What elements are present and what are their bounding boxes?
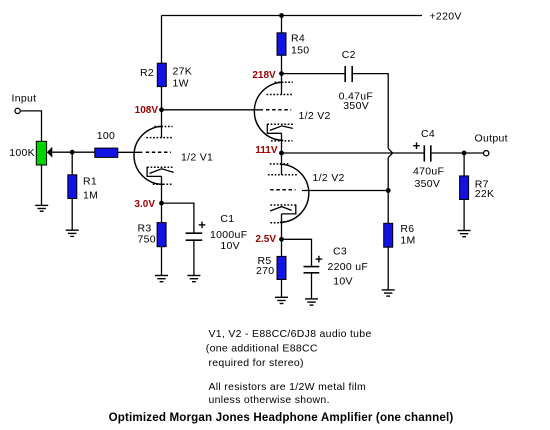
svg-text:108V: 108V: [135, 105, 159, 116]
svg-text:270: 270: [256, 265, 274, 277]
capacitor C3 plus sign: [316, 256, 323, 263]
capacitor C3 plates: [304, 267, 320, 273]
ground R3: [155, 276, 168, 282]
wire R6 to ground: [387, 247, 389, 290]
svg-text:218V: 218V: [252, 70, 276, 81]
capacitor C1 plus sign: [199, 222, 206, 229]
wire 3.0V node to C1: [162, 203, 194, 233]
capacitor C1 plates: [186, 233, 203, 240]
wire C4 to output node: [431, 152, 464, 154]
svg-text:R2: R2: [140, 67, 154, 79]
node output junction: [462, 151, 467, 156]
svg-text:10V: 10V: [220, 240, 240, 252]
triode V1 plate bar: [146, 137, 173, 139]
triode V2 lower plate lead: [281, 153, 283, 175]
triode V2 lower plate bar: [268, 174, 297, 176]
resistor R5: [277, 256, 286, 279]
potentiometer 100K body: [36, 141, 46, 165]
svg-text:Optimized Morgan Jones Headpho: Optimized Morgan Jones Headphone Amplifi…: [109, 411, 454, 424]
wire 2.5V node to R5: [281, 239, 283, 256]
wire R5 to ground: [281, 279, 283, 297]
wire 3.0V node to R3: [161, 203, 163, 223]
triode V2 upper envelope arc: [254, 82, 283, 140]
triode V2 upper plate lead: [281, 74, 283, 95]
svg-text:350V: 350V: [343, 100, 369, 112]
svg-text:(one additional E88CC: (one additional E88CC: [206, 343, 318, 355]
wire input terminal to pot: [21, 111, 42, 141]
triode V1 cathode dotted: [147, 166, 172, 168]
wire hop over 111V line: [388, 148, 392, 157]
triode V2 lower envelope bottom dotted: [270, 222, 282, 224]
svg-text:470uF: 470uF: [413, 165, 444, 177]
wire C3 to ground: [311, 273, 313, 299]
svg-text:1M: 1M: [400, 234, 415, 246]
triode V2 upper plate bar: [267, 94, 294, 96]
triode V2 upper heater caret: [270, 126, 293, 130]
svg-text:1/2 V2: 1/2 V2: [299, 110, 331, 122]
wire output node to R7: [463, 153, 465, 176]
terminal output: [484, 151, 489, 156]
wire V2 upper cathode to 111V node: [281, 133, 283, 153]
resistor 100: [95, 148, 118, 157]
svg-text:27K: 27K: [173, 66, 193, 78]
node rail/R4 junction: [279, 13, 284, 18]
svg-text:unless otherwise shown.: unless otherwise shown.: [209, 394, 330, 406]
wire V2 lower cathode to 2.5V node: [281, 214, 283, 239]
potentiometer wiper arrow: [47, 147, 53, 158]
wire +220V supply rail: [162, 15, 423, 17]
triode V1 grid dashed: [146, 151, 171, 153]
wire 108V node to V2 upper grid: [162, 109, 264, 111]
svg-text:C1: C1: [220, 213, 234, 225]
wire pot bottom to ground: [41, 165, 43, 205]
wire junction to R1: [71, 152, 73, 175]
wire V1 cathode to 3.0V node: [161, 176, 163, 203]
node 3.0V junction: [159, 201, 164, 206]
ground C3: [305, 299, 318, 305]
svg-text:100K: 100K: [9, 147, 35, 159]
svg-text:10V: 10V: [333, 276, 353, 288]
ground R7: [458, 231, 471, 237]
capacitor C2 plates: [345, 66, 352, 82]
svg-text:111V: 111V: [255, 145, 278, 156]
node wiper junction: [70, 150, 75, 155]
svg-text:+220V: +220V: [430, 10, 462, 22]
node 2.5V junction: [279, 237, 284, 242]
ground pot: [35, 205, 48, 211]
resistor R4: [277, 33, 286, 56]
wire junction to 100 resistor: [72, 151, 95, 153]
wire 218V node to C2: [282, 73, 345, 75]
wire R7 to ground: [463, 199, 465, 230]
svg-text:C3: C3: [333, 246, 347, 258]
svg-text:C4: C4: [421, 128, 435, 140]
svg-text:1W: 1W: [173, 78, 189, 90]
svg-text:R6: R6: [400, 223, 414, 235]
ground C1: [187, 276, 200, 282]
triode V2 lower heater caret: [270, 207, 292, 211]
svg-text:All resistors are 1/2W metal f: All resistors are 1/2W metal film: [209, 381, 367, 393]
triode V2 lower grid dashed: [270, 189, 295, 191]
triode V1 envelope top dotted: [154, 126, 172, 128]
svg-text:22K: 22K: [475, 188, 495, 200]
wire output node to terminal: [464, 152, 483, 154]
resistor R7: [460, 176, 469, 200]
resistor R1: [68, 175, 77, 199]
terminal input: [15, 108, 20, 113]
resistor R6: [384, 223, 393, 247]
svg-text:Output: Output: [475, 132, 508, 144]
triode V2 upper cathode dotted: [267, 123, 293, 125]
svg-text:150: 150: [291, 45, 309, 57]
svg-text:2.5V: 2.5V: [255, 234, 276, 245]
triode V2 lower cathode dotted: [270, 204, 295, 206]
svg-text:750: 750: [138, 233, 156, 245]
wire 111V node to C4: [282, 152, 425, 154]
wire rail to R4: [281, 16, 283, 34]
node R6/C2 junction: [386, 188, 391, 193]
svg-text:1/2 V2: 1/2 V2: [313, 172, 345, 184]
ground R6: [382, 290, 395, 296]
triode V2 lower envelope arc: [280, 164, 309, 222]
wire rail to R2: [161, 16, 163, 65]
wire node to R6: [387, 191, 389, 224]
triode V2 lower envelope top dotted: [270, 163, 289, 165]
triode V2 upper cathode hook: [267, 124, 281, 133]
triode V1 cathode hook: [147, 167, 161, 177]
svg-text:R1: R1: [83, 175, 97, 187]
triode V1 heater caret: [150, 169, 174, 174]
resistor R3: [157, 223, 166, 247]
svg-text:Input: Input: [12, 93, 37, 105]
node 108V junction: [159, 107, 164, 112]
wire C1 to ground: [193, 240, 195, 275]
wire 100 resistor to V1 grid: [117, 151, 142, 153]
svg-text:required for stereo): required for stereo): [209, 357, 304, 369]
svg-text:V1, V2 - E88CC/6DJ8 audio tu: V1, V2 - E88CC/6DJ8 audio tube: [209, 328, 372, 340]
svg-text:1/2 V1: 1/2 V1: [181, 152, 213, 164]
svg-text:1M: 1M: [83, 189, 98, 201]
svg-text:100: 100: [97, 130, 115, 142]
triode V2 lower cathode hook: [282, 205, 296, 214]
wire R2 to 108V node: [161, 86, 163, 110]
capacitor C4 plates: [424, 145, 431, 161]
wire hop to R6 node: [387, 158, 389, 191]
triode V2 upper grid dashed: [266, 109, 291, 111]
triode V2 upper envelope top dotted: [275, 81, 293, 83]
svg-text:C2: C2: [342, 49, 356, 61]
svg-text:2200 uF: 2200 uF: [328, 261, 369, 273]
resistor R2: [157, 63, 166, 86]
svg-text:R4: R4: [291, 33, 305, 45]
wire V2 lower grid to R6 node: [302, 190, 388, 192]
triode V2 upper envelope bottom dotted: [271, 140, 292, 142]
svg-text:350V: 350V: [415, 178, 441, 190]
triode V1 plate lead: [161, 110, 163, 138]
wire R4 to 218V node: [281, 55, 283, 74]
wire R1 to ground: [71, 198, 73, 230]
ground R1: [66, 230, 79, 236]
wire 2.5V node to C3: [282, 239, 312, 266]
node 218V junction: [279, 71, 284, 76]
wire wiper to junction: [52, 151, 72, 153]
triode V1 envelope arc: [134, 126, 163, 184]
ground R5: [275, 297, 288, 303]
node 111V junction: [279, 151, 284, 156]
triode V1 envelope bottom dotted: [153, 183, 173, 185]
capacitor C4 plus sign: [413, 142, 420, 149]
svg-text:3.0V: 3.0V: [134, 199, 155, 210]
wire C2 to vertical feedback wire: [353, 74, 389, 149]
wire R3 to ground: [161, 246, 163, 275]
